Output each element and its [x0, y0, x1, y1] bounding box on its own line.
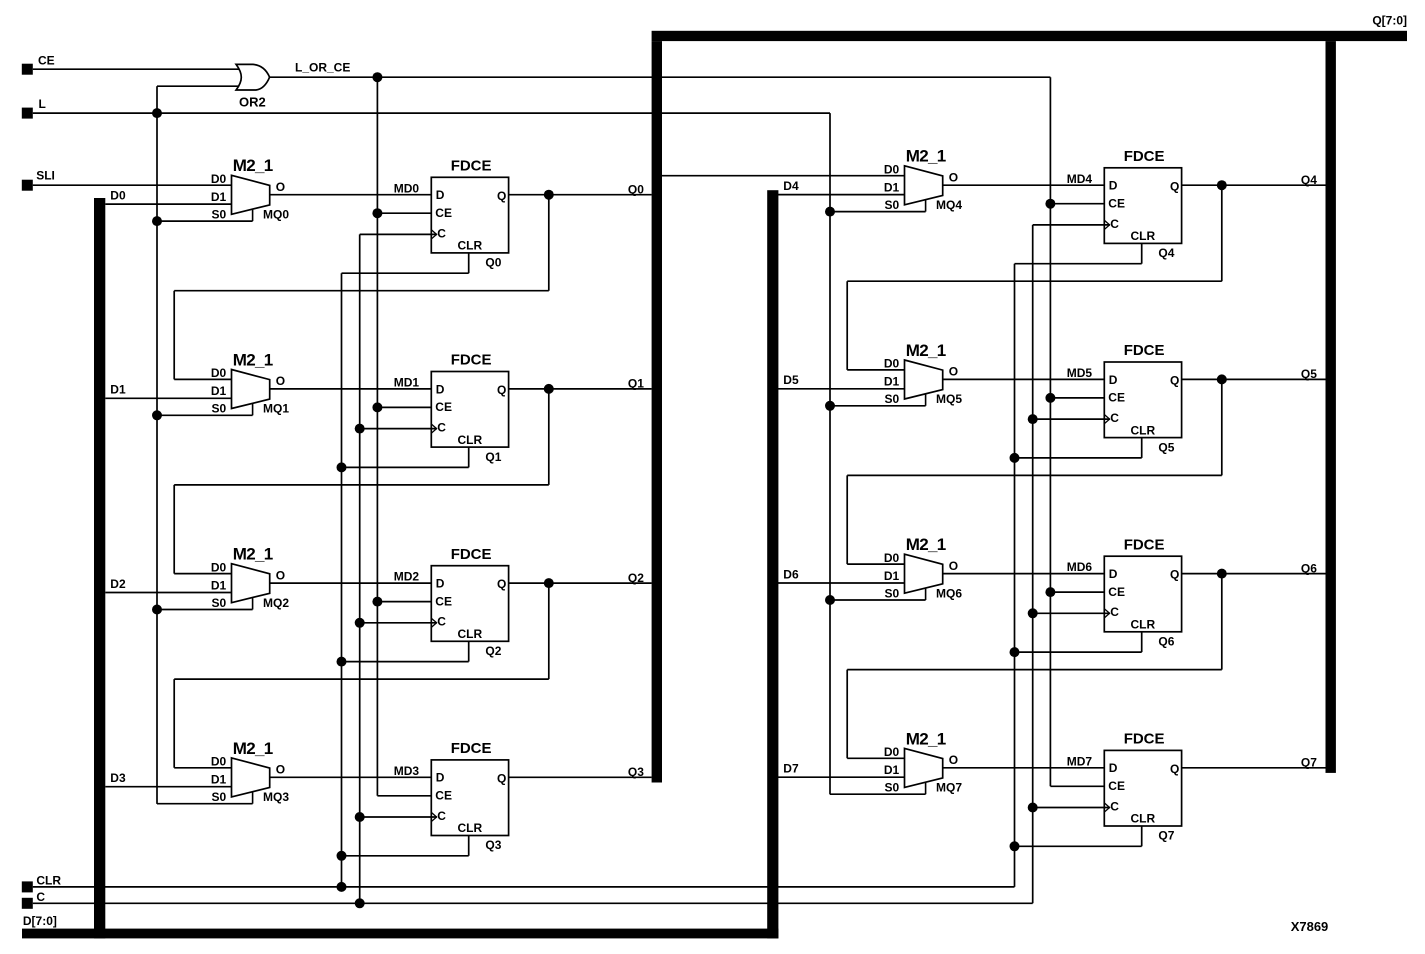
svg-text:C: C	[437, 615, 446, 629]
svg-text:MQ4: MQ4	[936, 198, 962, 212]
wire C clock vertical left	[359, 234, 361, 903]
wire CLR vertical left	[341, 273, 343, 887]
svg-text:D6: D6	[783, 567, 799, 581]
svg-text:D: D	[1109, 373, 1118, 387]
wire MD7 (mux O to FDCE D)	[943, 767, 1105, 769]
junction CLR vertical stage 1	[337, 462, 347, 472]
svg-text:CE: CE	[38, 53, 55, 67]
svg-text:MQ7: MQ7	[936, 781, 962, 795]
flip-flop FDCE Q1	[431, 372, 508, 448]
svg-text:C: C	[1110, 411, 1119, 425]
svg-text:FDCE: FDCE	[451, 740, 492, 757]
wire Q2 feedback to MQ3 D0	[548, 583, 550, 679]
junction Q6 feedback	[1217, 569, 1227, 579]
wire CLR to FDCE 5	[1141, 438, 1143, 458]
mux MQ7 S0 pin stub	[925, 783, 927, 794]
svg-text:S0: S0	[212, 207, 227, 221]
wire MD4 (mux O to FDCE D)	[943, 184, 1105, 186]
wire Q0 to Q bus	[509, 194, 652, 196]
svg-text:Q2: Q2	[628, 571, 644, 585]
wire C clock to FDCE 6	[1033, 612, 1110, 614]
svg-text:Q: Q	[497, 189, 506, 203]
wire MQ7 D0 input	[847, 757, 904, 759]
wire MD5 (mux O to FDCE D)	[943, 378, 1105, 380]
wire S0 to MQ5	[830, 405, 926, 407]
wire C clock to FDCE 0	[360, 233, 437, 235]
junction CLR vertical stage 5	[1010, 453, 1020, 463]
svg-text:Q: Q	[1170, 762, 1179, 776]
svg-text:L: L	[39, 97, 46, 111]
svg-text:S0: S0	[885, 781, 900, 795]
wire CLR to FDCE 7	[1141, 826, 1143, 846]
input pad C	[22, 898, 33, 909]
svg-text:CLR: CLR	[1131, 812, 1156, 826]
wire Q6 feedback to MQ7 D0	[1221, 574, 1223, 670]
wire CE vertical left (L_OR_CE)	[376, 77, 378, 796]
svg-text:Q: Q	[497, 577, 506, 591]
svg-text:D1: D1	[110, 383, 126, 397]
svg-text:M2_1: M2_1	[233, 739, 273, 758]
wire S0 to MQ4	[830, 211, 926, 213]
wire CLR to FDCE 3	[468, 836, 470, 856]
clock triangle pin C	[1104, 415, 1109, 424]
svg-text:D: D	[436, 188, 445, 202]
wire CLR to FDCE 2	[468, 641, 470, 661]
svg-text:D0: D0	[884, 357, 900, 371]
svg-text:D: D	[436, 382, 445, 396]
wire Q1 to Q bus	[509, 388, 652, 390]
svg-text:Q5: Q5	[1158, 440, 1174, 454]
svg-text:S0: S0	[885, 392, 900, 406]
wire C net	[33, 902, 1033, 904]
svg-text:CE: CE	[435, 789, 452, 803]
svg-text:O: O	[276, 763, 285, 777]
svg-text:D1: D1	[211, 384, 227, 398]
svg-text:C: C	[437, 421, 446, 435]
wire Q4 feedback to MQ5 D0	[1221, 185, 1223, 281]
svg-text:O: O	[276, 568, 285, 582]
svg-text:D2: D2	[110, 577, 126, 591]
svg-text:CLR: CLR	[458, 821, 483, 835]
wire MD0 (mux O to FDCE D)	[270, 194, 432, 196]
svg-text:MQ0: MQ0	[263, 207, 289, 221]
input pad SLI	[22, 180, 33, 191]
svg-text:Q5: Q5	[1301, 367, 1317, 381]
wire Q2 to Q bus	[509, 582, 652, 584]
junction CE vertical stage 6	[1045, 587, 1055, 597]
clock triangle pin C	[1104, 803, 1109, 812]
svg-text:M2_1: M2_1	[906, 147, 946, 166]
svg-text:FDCE: FDCE	[451, 352, 492, 369]
svg-text:O: O	[276, 374, 285, 388]
svg-text:M2_1: M2_1	[233, 545, 273, 564]
wire S0 to MQ0	[157, 220, 253, 222]
wire MD2 (mux O to FDCE D)	[270, 582, 432, 584]
svg-text:O: O	[949, 365, 958, 379]
wire CE vertical right (L_OR_CE)	[1049, 77, 1051, 786]
svg-text:FDCE: FDCE	[1124, 536, 1165, 553]
svg-text:CLR: CLR	[458, 433, 483, 447]
svg-text:CLR: CLR	[1131, 229, 1156, 243]
wire D0 from D bus	[105, 203, 231, 205]
junction C vertical stage 1	[355, 424, 365, 434]
svg-text:D1: D1	[211, 190, 227, 204]
svg-text:C: C	[437, 226, 446, 240]
junction CLR vertical stage 7	[1010, 841, 1020, 851]
svg-text:CE: CE	[1108, 196, 1125, 210]
svg-text:D0: D0	[884, 163, 900, 177]
svg-text:MD4: MD4	[1067, 172, 1093, 186]
svg-text:CLR: CLR	[36, 874, 61, 888]
wire S0 to MQ1	[157, 414, 253, 416]
wire Q3 to Q bus	[509, 776, 652, 778]
svg-text:Q4: Q4	[1301, 173, 1317, 187]
svg-text:MQ1: MQ1	[263, 402, 289, 416]
svg-text:M2_1: M2_1	[906, 341, 946, 360]
wire CLR to FDCE 0	[468, 253, 470, 273]
bus Q[7:0] left vertical	[652, 41, 662, 782]
svg-text:D: D	[1109, 179, 1118, 193]
svg-text:Q3: Q3	[485, 838, 501, 852]
mux M2_1 MQ5	[905, 360, 943, 399]
input pad CE	[22, 64, 33, 75]
junction C vertical stage 2	[355, 618, 365, 628]
junction Q1 feedback	[544, 384, 554, 394]
junction S0 vertical stage 2	[152, 605, 162, 615]
wire D6 from D bus	[778, 582, 905, 584]
svg-text:D5: D5	[783, 373, 799, 387]
wire S0 select vertical right (L)	[829, 113, 831, 794]
wire MQ3 D0 input	[174, 767, 231, 769]
svg-text:D1: D1	[884, 180, 900, 194]
junction CE vertical stage 1	[372, 402, 382, 412]
svg-text:C: C	[1110, 605, 1119, 619]
svg-text:M2_1: M2_1	[233, 350, 273, 369]
wire D7 from D bus	[778, 776, 905, 778]
wire CE to FDCE 4	[1050, 203, 1104, 205]
junction CE vertical stage 0	[372, 208, 382, 218]
svg-text:D0: D0	[211, 560, 227, 574]
junction Q2 feedback	[544, 578, 554, 588]
svg-text:S0: S0	[885, 198, 900, 212]
wire Q5 to Q bus	[1182, 378, 1326, 380]
svg-text:MD6: MD6	[1067, 560, 1093, 574]
svg-text:MQ3: MQ3	[263, 790, 289, 804]
flip-flop FDCE Q7	[1104, 750, 1181, 826]
svg-text:CE: CE	[1108, 585, 1125, 599]
svg-text:S0: S0	[212, 402, 227, 416]
svg-text:OR2: OR2	[239, 94, 266, 109]
mux M2_1 MQ1	[232, 370, 270, 409]
svg-text:C: C	[437, 809, 446, 823]
mux MQ0 S0 pin stub	[252, 210, 254, 221]
mux M2_1 MQ6	[905, 554, 943, 593]
svg-text:D[7:0]: D[7:0]	[23, 914, 57, 928]
svg-text:O: O	[949, 171, 958, 185]
wire Q1 feedback to MQ2 D0	[548, 389, 550, 485]
wire CLR to FDCE 6	[1141, 632, 1143, 652]
input pad CLR	[22, 881, 33, 892]
wire CE to FDCE 5	[1050, 397, 1104, 399]
wire CE to FDCE 7	[1050, 785, 1104, 787]
svg-text:FDCE: FDCE	[1124, 148, 1165, 165]
wire CE to FDCE 3	[377, 795, 431, 797]
wire CE to OR2 input	[33, 68, 240, 70]
flip-flop FDCE Q3	[431, 760, 508, 836]
wire SLI to MQ0 D0	[33, 184, 232, 186]
svg-text:SLI: SLI	[36, 169, 55, 183]
wire CLR to FDCE 1	[468, 447, 470, 467]
junction S0 vertical stage 0	[152, 216, 162, 226]
svg-text:CLR: CLR	[458, 627, 483, 641]
svg-text:MQ2: MQ2	[263, 596, 289, 610]
svg-text:D: D	[1109, 761, 1118, 775]
junction C vertical stage 6	[1028, 608, 1038, 618]
or-gate OR2	[236, 64, 270, 90]
svg-text:FDCE: FDCE	[1124, 342, 1165, 359]
wire C clock to FDCE 5	[1033, 418, 1110, 420]
svg-text:Q7: Q7	[1158, 829, 1174, 843]
svg-text:X7869: X7869	[1291, 919, 1329, 934]
svg-text:CLR: CLR	[1131, 618, 1156, 632]
svg-text:C: C	[1110, 217, 1119, 231]
svg-text:CE: CE	[435, 206, 452, 220]
wire L branch up to OR2 input	[156, 86, 158, 113]
junction CLR vertical stage 3	[337, 851, 347, 861]
wire CE to FDCE 6	[1050, 591, 1104, 593]
junction L_OR_CE / left CE vertical	[372, 72, 382, 82]
bus Q[7:0] top horizontal	[652, 31, 1407, 41]
svg-text:Q: Q	[1170, 374, 1179, 388]
svg-text:D4: D4	[783, 179, 799, 193]
svg-text:Q4: Q4	[1158, 246, 1174, 260]
svg-text:S0: S0	[212, 790, 227, 804]
flip-flop FDCE Q4	[1104, 168, 1181, 244]
junction Q0 feedback	[544, 190, 554, 200]
input pad L	[22, 108, 33, 119]
svg-text:D: D	[436, 577, 445, 591]
svg-text:CE: CE	[435, 400, 452, 414]
svg-text:D1: D1	[884, 375, 900, 389]
svg-text:Q: Q	[497, 383, 506, 397]
svg-text:S0: S0	[885, 586, 900, 600]
wire MQ5 D0 input	[847, 369, 904, 371]
svg-text:O: O	[276, 180, 285, 194]
svg-text:MQ5: MQ5	[936, 392, 962, 406]
junction C vertical stage 5	[1028, 414, 1038, 424]
svg-text:D7: D7	[783, 762, 799, 776]
svg-text:O: O	[949, 753, 958, 767]
wire S0 to MQ7	[830, 793, 926, 795]
clock triangle pin C	[431, 424, 436, 433]
junction S0 vertical stage 5	[825, 401, 835, 411]
svg-text:Q3: Q3	[628, 765, 644, 779]
wire D3 from D bus	[105, 786, 231, 788]
mux MQ3 S0 pin stub	[252, 792, 254, 803]
bus D[7:0] left vertical	[94, 198, 105, 938]
svg-text:D: D	[1109, 567, 1118, 581]
wire C clock to FDCE 7	[1033, 807, 1110, 809]
mux MQ4 S0 pin stub	[925, 200, 927, 211]
svg-text:Q0: Q0	[485, 256, 501, 270]
svg-text:MD1: MD1	[394, 376, 420, 390]
junction CE vertical stage 2	[372, 597, 382, 607]
wire C clock vertical right	[1032, 225, 1034, 903]
junction C vertical stage 7	[1028, 803, 1038, 813]
svg-text:MD2: MD2	[394, 570, 420, 584]
svg-text:CE: CE	[1108, 779, 1125, 793]
svg-text:D1: D1	[884, 763, 900, 777]
svg-text:MD0: MD0	[394, 181, 420, 195]
wire Q3 bus tap to MQ4 D0	[662, 175, 905, 177]
wire CE to FDCE 2	[377, 601, 431, 603]
wire CLR net	[33, 886, 1015, 888]
svg-text:D3: D3	[110, 771, 126, 785]
svg-text:Q1: Q1	[485, 450, 501, 464]
flip-flop FDCE Q6	[1104, 556, 1181, 632]
wire Q7 to Q bus	[1182, 767, 1326, 769]
bus D[7:0] bottom horizontal	[22, 929, 778, 939]
wire D5 from D bus	[778, 388, 905, 390]
wire C clock to FDCE 4	[1033, 224, 1110, 226]
svg-text:C: C	[1110, 799, 1119, 813]
svg-text:CLR: CLR	[1131, 423, 1156, 437]
svg-text:M2_1: M2_1	[906, 729, 946, 748]
svg-text:D: D	[436, 771, 445, 785]
wire D4 from D bus	[778, 194, 905, 196]
svg-text:CE: CE	[1108, 391, 1125, 405]
svg-text:FDCE: FDCE	[451, 157, 492, 174]
junction CE vertical stage 4	[1045, 199, 1055, 209]
clock triangle pin C	[431, 812, 436, 821]
wire net L_OR_CE	[269, 76, 1051, 78]
wire C clock to FDCE 1	[360, 428, 437, 430]
junction CLR vertical stage 6	[1010, 647, 1020, 657]
flip-flop FDCE Q2	[431, 566, 508, 642]
mux MQ6 S0 pin stub	[925, 589, 927, 600]
junction CE vertical stage 5	[1045, 393, 1055, 403]
wire MD3 (mux O to FDCE D)	[270, 776, 432, 778]
svg-text:CLR: CLR	[458, 239, 483, 253]
mux MQ5 S0 pin stub	[925, 394, 927, 405]
svg-text:D0: D0	[211, 172, 227, 186]
clock triangle pin C	[431, 230, 436, 239]
wire Q0 feedback to MQ1 D0	[548, 195, 550, 291]
svg-text:D0: D0	[211, 366, 227, 380]
clock triangle pin C	[431, 618, 436, 627]
wire D2 from D bus	[105, 592, 231, 594]
svg-text:CE: CE	[435, 594, 452, 608]
svg-text:MD5: MD5	[1067, 366, 1093, 380]
svg-text:S0: S0	[212, 596, 227, 610]
svg-text:Q[7:0]: Q[7:0]	[1372, 13, 1407, 27]
svg-text:D0: D0	[211, 755, 227, 769]
bus Q[7:0] right vertical	[1326, 41, 1336, 773]
svg-text:MD7: MD7	[1067, 754, 1093, 768]
svg-text:D1: D1	[884, 569, 900, 583]
junction S0 vertical stage 4	[825, 207, 835, 217]
wire CE to FDCE 1	[377, 406, 431, 408]
wire S0 to MQ3	[157, 803, 253, 805]
mux M2_1 MQ0	[232, 175, 270, 214]
wire S0 to MQ6	[830, 599, 926, 601]
svg-text:O: O	[949, 559, 958, 573]
svg-text:Q2: Q2	[485, 644, 501, 658]
wire CLR to FDCE 4	[1141, 243, 1143, 263]
svg-text:Q0: Q0	[628, 182, 644, 196]
flip-flop FDCE Q5	[1104, 362, 1181, 438]
wire C clock to FDCE 2	[360, 622, 437, 624]
junction S0 vertical stage 6	[825, 595, 835, 605]
wire Q4 to Q bus	[1182, 184, 1326, 186]
flip-flop FDCE Q0	[431, 177, 508, 253]
svg-text:FDCE: FDCE	[1124, 731, 1165, 748]
wire C clock to FDCE 3	[360, 816, 437, 818]
svg-text:C: C	[36, 890, 45, 904]
wire Q6 to Q bus	[1182, 573, 1326, 575]
junction CLR vertical stage 2	[337, 657, 347, 667]
wire S0 to MQ2	[157, 609, 253, 611]
junction C vertical stage 3	[355, 812, 365, 822]
mux MQ1 S0 pin stub	[252, 404, 254, 415]
junction Q4 feedback	[1217, 180, 1227, 190]
svg-text:D0: D0	[884, 745, 900, 759]
wire MD6 (mux O to FDCE D)	[943, 573, 1105, 575]
wire MQ2 D0 input	[174, 573, 231, 575]
wire D1 from D bus	[105, 397, 231, 399]
wire CE to FDCE 0	[377, 212, 431, 214]
svg-text:Q1: Q1	[628, 377, 644, 391]
wire MQ6 D0 input	[847, 563, 904, 565]
svg-text:FDCE: FDCE	[451, 546, 492, 563]
svg-text:MQ6: MQ6	[936, 586, 962, 600]
mux M2_1 MQ2	[232, 564, 270, 603]
svg-text:Q: Q	[497, 771, 506, 785]
junction S0 vertical stage 1	[152, 410, 162, 420]
svg-text:D0: D0	[884, 551, 900, 565]
svg-text:Q: Q	[1170, 179, 1179, 193]
svg-text:M2_1: M2_1	[233, 156, 273, 175]
svg-text:Q7: Q7	[1301, 756, 1317, 770]
junction C vertical / C net	[355, 898, 365, 908]
svg-text:D1: D1	[211, 773, 227, 787]
junction Q5 feedback	[1217, 374, 1227, 384]
svg-text:D0: D0	[110, 188, 126, 202]
clock triangle pin C	[1104, 609, 1109, 618]
mux M2_1 MQ4	[905, 166, 943, 205]
junction CLR vertical / CLR net	[337, 882, 347, 892]
mux M2_1 MQ3	[232, 758, 270, 797]
svg-text:M2_1: M2_1	[906, 535, 946, 554]
bus D[7:0] right vertical	[767, 190, 778, 938]
junction L / S0 vertical	[152, 108, 162, 118]
svg-text:D1: D1	[211, 578, 227, 592]
wire L horizontal net	[33, 112, 830, 114]
wire MQ1 D0 input	[174, 378, 231, 380]
svg-text:Q6: Q6	[1301, 561, 1317, 575]
mux MQ2 S0 pin stub	[252, 598, 254, 609]
wire CLR vertical right	[1014, 264, 1016, 887]
wire S0 select vertical left (L)	[156, 113, 158, 804]
svg-text:L_OR_CE: L_OR_CE	[295, 60, 350, 74]
mux M2_1 MQ7	[905, 748, 943, 787]
clock triangle pin C	[1104, 220, 1109, 229]
svg-text:Q6: Q6	[1158, 635, 1174, 649]
wire Q5 feedback to MQ6 D0	[1221, 379, 1223, 475]
svg-text:Q: Q	[1170, 568, 1179, 582]
svg-text:MD3: MD3	[394, 764, 420, 778]
wire MD1 (mux O to FDCE D)	[270, 388, 432, 390]
